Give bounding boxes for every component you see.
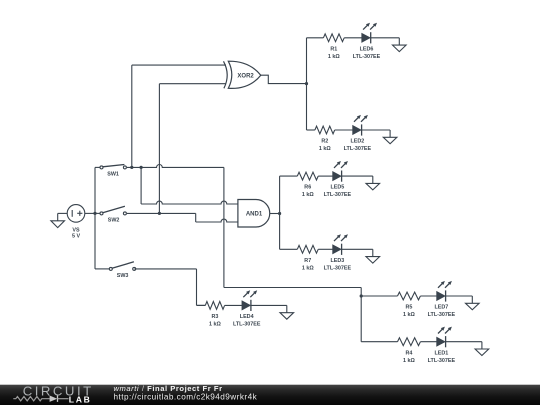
svg-text:LED1: LED1: [435, 350, 449, 356]
svg-text:1 kΩ: 1 kΩ: [403, 312, 415, 318]
svg-text:R4: R4: [405, 350, 412, 356]
svg-text:LED2: LED2: [351, 139, 365, 145]
svg-text:LTL-307EE: LTL-307EE: [324, 265, 352, 271]
svg-text:http://circuitlab.com/c2k94d9w: http://circuitlab.com/c2k94d9wrkr4k: [114, 392, 258, 401]
svg-text:5 V: 5 V: [72, 234, 80, 240]
svg-text:R6: R6: [304, 185, 311, 191]
svg-text:LED4: LED4: [240, 314, 254, 320]
svg-text:SW2: SW2: [108, 218, 120, 224]
svg-text:LTL-307EE: LTL-307EE: [353, 54, 381, 60]
svg-text:AND1: AND1: [246, 212, 263, 218]
svg-text:LED7: LED7: [435, 305, 449, 311]
svg-text:SW1: SW1: [107, 172, 119, 178]
svg-text:SW3: SW3: [117, 273, 129, 279]
svg-text:1 kΩ: 1 kΩ: [209, 322, 221, 328]
svg-text:LED6: LED6: [360, 46, 374, 52]
svg-text:XOR2: XOR2: [237, 73, 254, 79]
svg-text:1 kΩ: 1 kΩ: [403, 358, 415, 364]
svg-text:1 kΩ: 1 kΩ: [319, 146, 331, 152]
svg-text:LED3: LED3: [331, 258, 345, 264]
svg-text:R3: R3: [211, 314, 218, 320]
svg-text:LAB: LAB: [69, 395, 92, 405]
svg-text:LTL-307EE: LTL-307EE: [344, 146, 372, 152]
svg-text:LED5: LED5: [331, 185, 345, 191]
svg-text:1 kΩ: 1 kΩ: [302, 192, 314, 198]
svg-text:R5: R5: [405, 305, 412, 311]
svg-text:LTL-307EE: LTL-307EE: [428, 358, 456, 364]
svg-text:R7: R7: [304, 258, 311, 264]
svg-text:LTL-307EE: LTL-307EE: [233, 322, 261, 328]
svg-text:R2: R2: [321, 139, 328, 145]
svg-text:LTL-307EE: LTL-307EE: [428, 312, 456, 318]
svg-text:1 kΩ: 1 kΩ: [328, 54, 340, 60]
svg-text:R1: R1: [330, 46, 337, 52]
svg-text:1 kΩ: 1 kΩ: [302, 265, 314, 271]
svg-text:LTL-307EE: LTL-307EE: [324, 192, 352, 198]
